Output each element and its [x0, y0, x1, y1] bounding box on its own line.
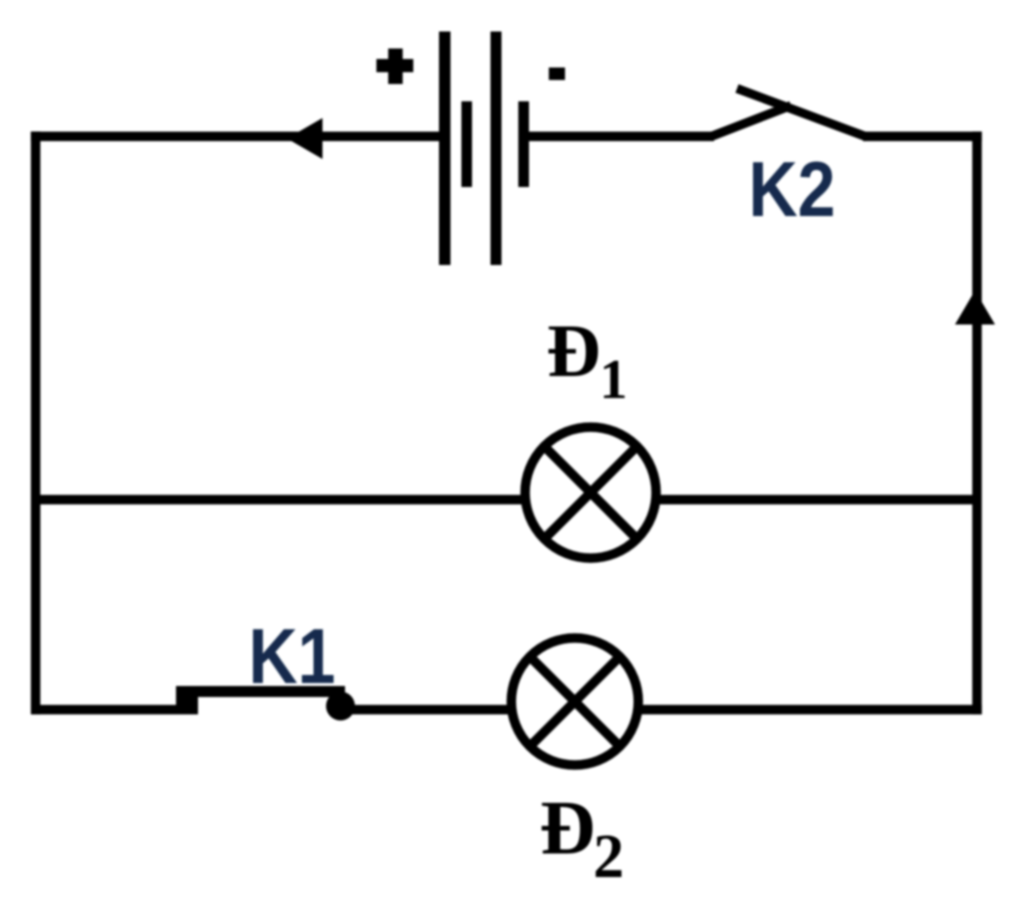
switch K2: left contact riser — [711, 106, 791, 137]
wire: lamp D2 to bottom-right corner — [641, 705, 982, 715]
wire: battery negative to switch K2 — [527, 132, 714, 142]
wire: bottom left segment to switch K1 — [31, 705, 198, 715]
lamp D1 circle — [525, 427, 656, 558]
wire: middle horizontal right of lamp D1 — [656, 495, 977, 505]
battery: right long plate — [491, 32, 502, 266]
battery: right short plate (-) — [518, 101, 529, 187]
wire: switch K1 to lamp D2 — [338, 705, 509, 715]
svg-text:2: 2 — [593, 823, 624, 891]
battery: middle short plate — [461, 101, 472, 187]
lamp D2 circle — [511, 638, 638, 765]
battery: left long plate (+) — [439, 32, 451, 266]
svg-text:K1: K1 — [249, 612, 336, 700]
wire: right vertical side — [972, 132, 982, 715]
lamp D1 cross — [544, 446, 637, 539]
arrow: current direction on top wire (pointing left) — [287, 118, 323, 159]
svg-text:K2: K2 — [749, 145, 836, 233]
lamp D2 cross — [530, 657, 620, 747]
switch K1: left terminal nub — [176, 686, 198, 714]
arrow: current direction on right wire (pointing up) — [955, 291, 995, 325]
switch K1: pivot dot — [326, 692, 355, 721]
wire: switch K2 to top-right corner — [863, 132, 982, 142]
label: minus sign — [549, 68, 565, 81]
switch K2: blade — [737, 89, 867, 138]
wire: middle horizontal left of lamp D1 — [31, 495, 526, 505]
wire: left vertical side — [31, 132, 41, 715]
svg-text:1: 1 — [600, 349, 628, 411]
svg-text:Đ: Đ — [547, 310, 601, 393]
switch K1: closed blade — [178, 686, 345, 697]
label: plus sign — [376, 49, 413, 85]
wire: top-left horizontal (corner to battery +) — [31, 132, 440, 142]
svg-text:Đ: Đ — [540, 784, 596, 870]
